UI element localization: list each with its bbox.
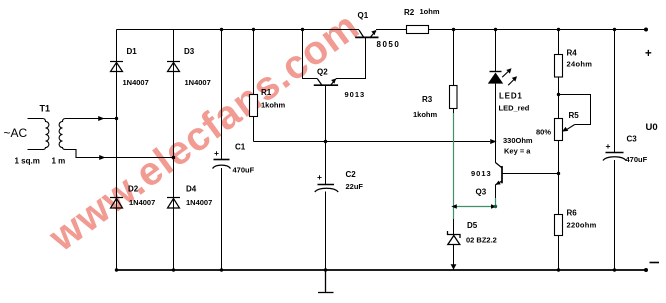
diode D1 <box>110 62 123 72</box>
junction Q2 collector top bus <box>301 28 304 31</box>
svg-text:330Ohm: 330Ohm <box>503 136 533 145</box>
transistor Q1 <box>355 30 378 37</box>
svg-text:1N4007: 1N4007 <box>129 198 155 207</box>
wire Q3 emitter lead <box>495 185 497 199</box>
transistor Q3 <box>495 162 502 184</box>
primary winding <box>28 119 49 150</box>
wire D5 top lead <box>453 219 455 235</box>
svg-text:Q2: Q2 <box>317 68 328 77</box>
node AC input D3-D4 <box>172 156 175 159</box>
diode D3 <box>167 62 180 72</box>
diode D2 <box>110 198 123 209</box>
svg-text:Q1: Q1 <box>358 11 369 20</box>
arrow D5 to ground bus <box>451 264 457 270</box>
transformer T1 <box>28 119 174 158</box>
svg-text:R1: R1 <box>261 88 272 97</box>
wire top bus left segment <box>117 29 360 31</box>
svg-text:D1: D1 <box>127 47 138 56</box>
svg-text:R6: R6 <box>567 209 578 218</box>
svg-text:220ohm: 220ohm <box>567 221 597 230</box>
wire R4 to R5 lead <box>558 77 560 119</box>
svg-text:+: + <box>317 172 322 182</box>
wire R6 bottom lead <box>558 236 560 271</box>
junction R4-R5 wiper loop <box>557 93 560 96</box>
wire Q3 base to R5-R6 node <box>502 173 559 175</box>
wire Q2 emitter to Q1 base <box>336 37 366 78</box>
wire C1 vertical <box>221 30 223 271</box>
svg-text:470uF: 470uF <box>626 155 648 164</box>
svg-text:1N4007: 1N4007 <box>185 78 211 87</box>
arrow secondary top <box>98 116 104 121</box>
svg-text:1ohm: 1ohm <box>420 7 440 16</box>
junction R6 bottom bus <box>557 268 560 271</box>
svg-text:~AC: ~AC <box>4 126 28 140</box>
svg-text:R3: R3 <box>422 95 433 104</box>
svg-text:D2: D2 <box>128 185 139 194</box>
svg-text:1N4007: 1N4007 <box>186 198 212 207</box>
svg-text:+: + <box>645 48 652 60</box>
svg-text:Q3: Q3 <box>476 188 487 197</box>
svg-text:1 sq.m: 1 sq.m <box>15 157 40 166</box>
svg-text:R2: R2 <box>404 8 415 17</box>
junction D4 bottom bus <box>172 268 175 271</box>
green arrow left <box>451 204 457 209</box>
node plus output terminal <box>644 28 648 32</box>
svg-text:24ohm: 24ohm <box>567 60 593 69</box>
potentiometer R5 <box>555 119 563 141</box>
wire Q2 collector drop <box>303 30 318 79</box>
wire R3 top lead <box>453 30 455 86</box>
svg-text:C2: C2 <box>346 170 357 179</box>
svg-text:8050: 8050 <box>377 40 401 49</box>
svg-text:22uF: 22uF <box>346 182 364 191</box>
wire C3 vertical <box>614 30 616 271</box>
junction R3 top bus <box>452 28 455 31</box>
junction LED1 top bus <box>494 28 497 31</box>
wire LED top lead <box>495 30 497 73</box>
svg-text:T1: T1 <box>40 104 51 114</box>
svg-text:1 m: 1 m <box>52 157 66 166</box>
svg-text:+: + <box>214 148 219 158</box>
junction R4 top bus <box>557 28 560 31</box>
wire R5 to R6 lead <box>558 141 560 215</box>
wire bridge right vertical <box>173 30 175 271</box>
wire R1 to LED node horizontal <box>254 141 491 143</box>
transistor Q2 <box>314 79 338 86</box>
wire top bus right segment <box>376 29 646 31</box>
svg-text:Key = a: Key = a <box>504 147 531 156</box>
svg-text:U0: U0 <box>646 122 658 133</box>
wire R4 top lead <box>558 30 560 55</box>
ground <box>318 270 334 293</box>
svg-text:02 BZ2.2: 02 BZ2.2 <box>466 236 497 245</box>
svg-text:9013: 9013 <box>345 90 366 99</box>
node AC input D1-D2 <box>115 117 118 120</box>
green wire R3 to Q3 emitter and D5 <box>454 113 496 219</box>
wire R1 top lead <box>253 30 255 95</box>
capacitor C3 <box>603 153 626 161</box>
svg-text:D5: D5 <box>467 221 478 230</box>
svg-text:9013: 9013 <box>471 169 492 178</box>
junction Q3 base R5-R6 <box>557 172 560 175</box>
arrow node to LED column <box>490 139 496 144</box>
svg-text:C3: C3 <box>627 135 638 144</box>
junction Q2 base C2 <box>324 140 327 143</box>
svg-text:C1: C1 <box>235 143 246 152</box>
svg-text:1kohm: 1kohm <box>261 101 286 110</box>
junction Q3 emitter green net <box>494 205 497 208</box>
wire LED to Q3 collector <box>495 84 497 163</box>
svg-text:D4: D4 <box>186 185 197 194</box>
resistor R3 <box>450 86 458 109</box>
junction C3 bottom bus <box>613 268 616 271</box>
svg-text:LED_red: LED_red <box>499 104 530 113</box>
arrow secondary bottom <box>99 155 105 160</box>
node minus output terminal <box>644 268 648 272</box>
wire R3 bottom stub <box>453 109 455 114</box>
junction C1 top bus <box>220 28 223 31</box>
svg-text:LED1: LED1 <box>499 92 523 101</box>
potentiometer R5 wiper arrow <box>566 125 575 131</box>
resistor R1 <box>250 95 258 117</box>
wire R5 wiper loop <box>559 95 591 125</box>
resistor R4 <box>555 55 563 78</box>
label minus output <box>650 262 660 264</box>
wire R1 bottom lead <box>253 117 255 142</box>
capacitor C1 <box>213 160 231 169</box>
junction C3 top bus <box>613 28 616 31</box>
svg-text:R5: R5 <box>569 111 580 120</box>
wire Q2 base / C2 vertical <box>325 86 327 271</box>
capacitor C2 <box>315 185 338 193</box>
wire bottom bus <box>116 269 647 271</box>
wire D5 bottom lead <box>453 245 455 271</box>
zener diode D5 <box>448 231 461 245</box>
resistor R2 <box>407 26 429 34</box>
junction R1 top bus <box>252 28 255 31</box>
svg-text:R4: R4 <box>567 49 578 58</box>
svg-text:1N4007: 1N4007 <box>123 78 149 87</box>
svg-text:1kohm: 1kohm <box>413 110 438 119</box>
junction C2 ground bus <box>324 268 327 271</box>
resistor R6 <box>555 215 563 236</box>
svg-text:470uF: 470uF <box>233 166 255 175</box>
junction C1 bottom bus <box>220 268 223 271</box>
svg-text:D3: D3 <box>184 47 195 56</box>
svg-text:+: + <box>606 141 611 151</box>
wire bridge left vertical <box>116 30 118 271</box>
green arrow right <box>491 204 497 209</box>
svg-text:80%: 80% <box>536 128 551 137</box>
LED LED1 <box>490 71 502 73</box>
secondary winding <box>59 119 173 158</box>
diode D4 <box>167 198 180 209</box>
junction D2 bottom bus <box>115 268 118 271</box>
